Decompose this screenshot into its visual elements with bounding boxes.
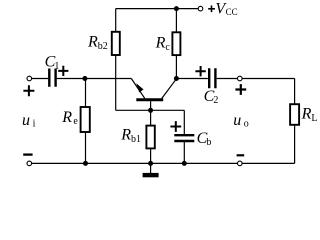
svg-text:L: L [311,113,317,124]
svg-text:b2: b2 [98,41,108,52]
wire C1 to emitter [57,78,132,80]
terminal output bottom [238,161,243,166]
resistor Rb1 [120,126,155,149]
terminal VCC [198,6,203,11]
capacitor C2 [204,68,219,106]
wire Rb2 branch vertical [115,9,117,111]
node Re bottom [83,161,88,166]
svg-text:R: R [120,126,131,143]
terminal output top [238,76,243,81]
resistor Rc [155,32,181,55]
node top rail / Rc [174,6,179,11]
svg-text:R: R [301,106,312,123]
wire output terminal to RL [242,78,294,80]
wire Re vertical [85,79,87,164]
plus Cb [170,121,181,132]
svg-text:R: R [87,33,98,50]
node base [148,108,153,113]
wire Cb top vertical [183,110,185,135]
svg-text:o: o [244,119,249,130]
svg-text:c: c [165,42,170,53]
node input / Re / emitter [82,76,87,81]
wire bottom rail left [32,162,238,164]
node collector [174,76,179,81]
svg-text:b1: b1 [131,134,141,145]
wire base rail [116,109,185,111]
node Cb bottom [182,161,187,166]
wire bottom rail right [242,162,294,164]
minus output [237,154,245,156]
plus output [235,84,246,95]
wire RL vertical [294,79,296,164]
svg-text:e: e [73,116,78,127]
node ground junction [148,161,153,166]
resistor Rb2 [87,32,120,55]
label +VCC [208,0,237,17]
plus input [23,85,34,96]
terminal input bottom [27,161,32,166]
wire Rc branch vertical [175,9,177,79]
svg-text:i: i [33,119,36,130]
svg-text:u: u [233,112,241,129]
terminal input top [27,76,32,81]
wire C2 to output terminal [217,78,238,80]
svg-text:R: R [155,35,166,52]
wire top rail VCC [116,8,199,10]
svg-text:CC: CC [226,7,238,17]
label ui [22,112,36,130]
plus C2 left [195,66,205,76]
wire Rb1 vertical [150,110,152,163]
ground [143,163,159,177]
minus input [23,153,32,155]
capacitor Cb [174,130,211,148]
svg-text:2: 2 [213,95,218,106]
resistor Re [61,107,90,132]
svg-text:b: b [206,137,211,148]
wire Cb bottom vertical [183,141,185,163]
resistor RL [290,104,317,125]
wire input to C1 [32,78,49,80]
svg-text:R: R [61,109,72,126]
wire collector to C2 [176,78,208,80]
label uo [233,112,249,130]
svg-text:u: u [22,112,30,129]
capacitor C1 [45,54,60,87]
transistor Q1 [131,79,176,111]
plus C1 right [58,66,68,76]
